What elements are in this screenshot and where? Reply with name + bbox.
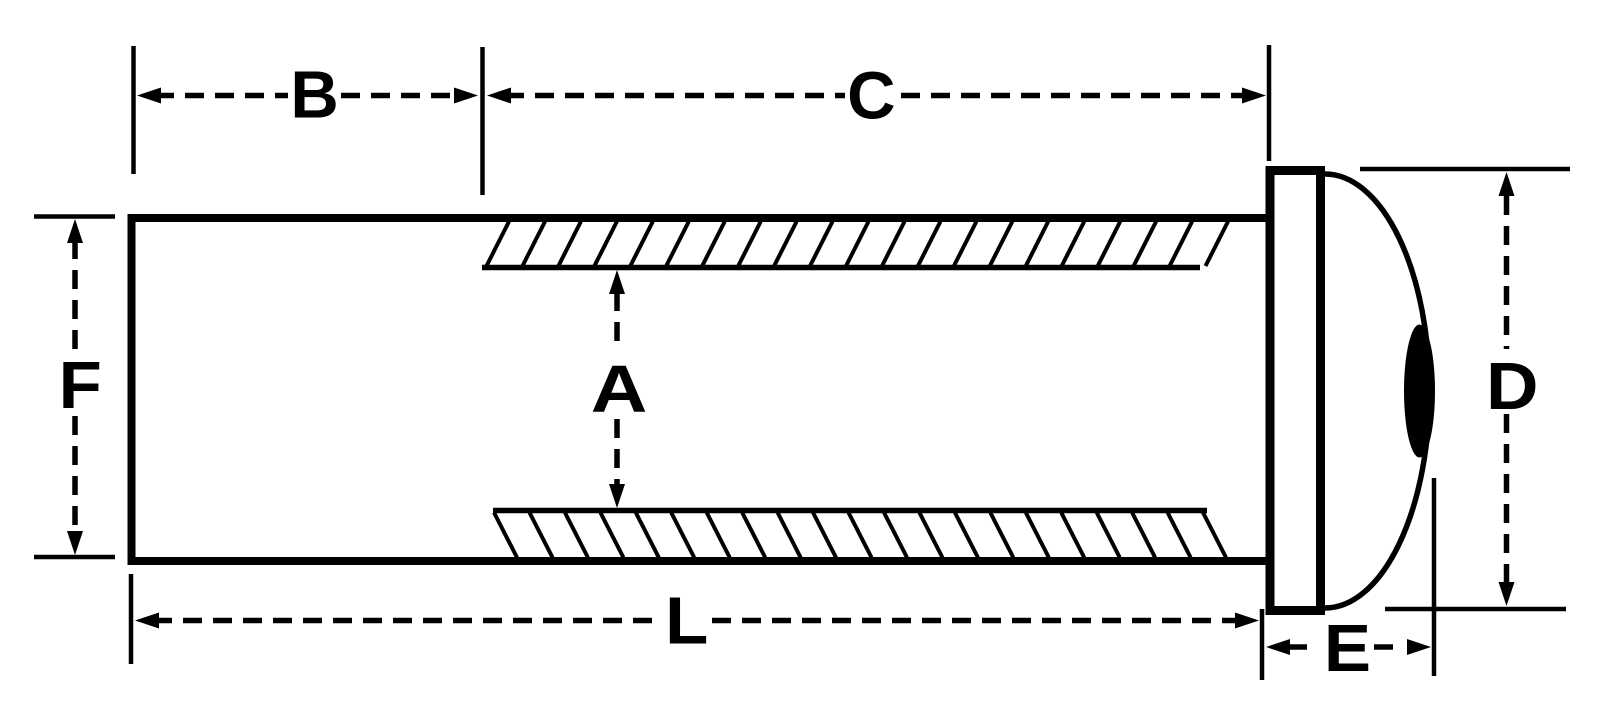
dimension L arrows	[135, 613, 159, 629]
dome arc	[1325, 174, 1429, 608]
dimension A dashes	[614, 292, 620, 349]
dimension B dashes	[155, 93, 288, 99]
dimension F arrows	[67, 219, 83, 243]
svg-text:A: A	[591, 352, 648, 426]
dimension D dashes	[1504, 196, 1510, 349]
bottom thread top line	[493, 508, 1207, 514]
D bottom extension line	[1385, 607, 1566, 612]
svg-text:B: B	[290, 58, 338, 133]
E right extension line	[1432, 478, 1437, 676]
L/E shared extension line	[1260, 609, 1265, 680]
dimension E arrows	[1266, 639, 1290, 655]
F bottom tick	[34, 555, 115, 560]
dimension E dashes	[1288, 644, 1318, 650]
extension line mid (B/C)	[480, 47, 485, 195]
body top edge	[128, 214, 1267, 222]
F top tick	[34, 214, 115, 219]
svg-text:D: D	[1486, 349, 1538, 424]
dimension D arrows	[1499, 172, 1515, 196]
D top extension line	[1360, 167, 1570, 172]
dimension B arrows	[137, 88, 161, 104]
L left extension line	[129, 574, 134, 664]
body left edge	[128, 214, 136, 565]
dimension C arrows	[487, 88, 511, 104]
svg-text:C: C	[847, 59, 895, 134]
body bottom edge	[128, 557, 1267, 565]
dimension A arrows	[609, 270, 625, 294]
dome hole ellipse	[1404, 325, 1435, 458]
bottom thread hatching	[494, 513, 1226, 558]
svg-text:F: F	[59, 348, 102, 423]
extension line left (B)	[131, 46, 136, 174]
flange rectangle	[1270, 171, 1321, 611]
top thread bottom line	[482, 265, 1200, 271]
top thread hatching	[487, 222, 1229, 267]
dimension C dashes	[505, 93, 845, 99]
dimension L dashes	[153, 618, 660, 624]
extension line right (C)	[1267, 45, 1272, 161]
svg-text:E: E	[1324, 611, 1371, 686]
dimension F dashes	[72, 240, 78, 352]
svg-text:L: L	[665, 583, 708, 658]
